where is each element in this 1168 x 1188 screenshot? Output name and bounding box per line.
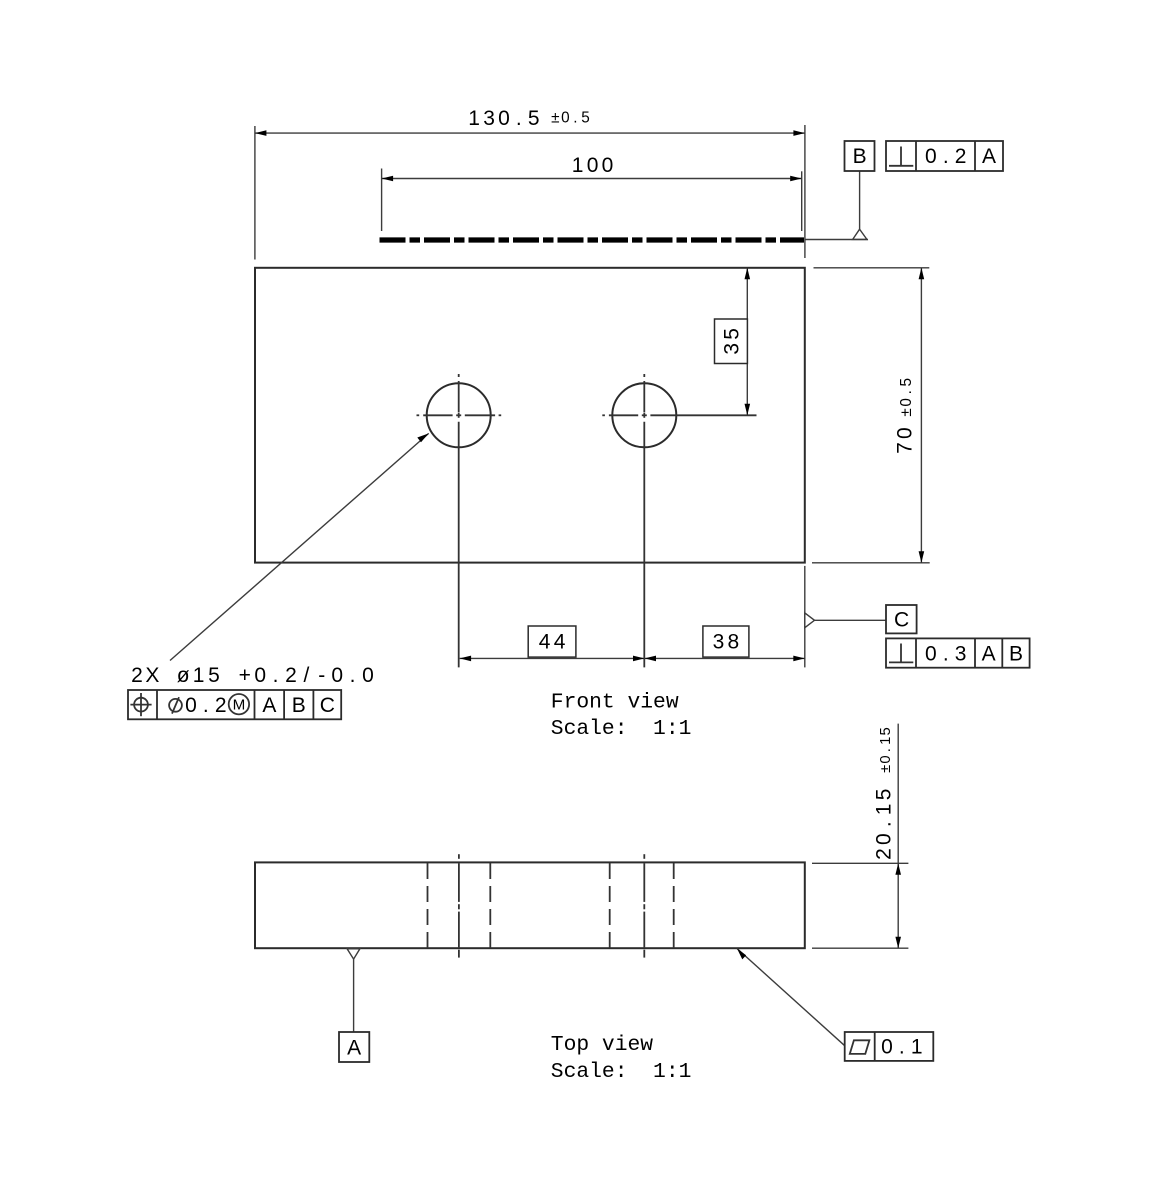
svg-text:Top view: Top view: [551, 1033, 653, 1057]
svg-text:100: 100: [572, 154, 613, 177]
datum B symbol: [806, 141, 875, 240]
svg-text:20.15: 20.15: [873, 789, 896, 860]
hidden line hole 1 left: [427, 863, 429, 948]
svg-text:M: M: [233, 696, 246, 713]
datum C symbol: [805, 605, 917, 633]
hidden line hole 1 right: [489, 863, 491, 948]
svg-text:0.2: 0.2: [185, 694, 226, 717]
dimension 44: [460, 566, 805, 668]
svg-text:0.2: 0.2: [925, 145, 966, 168]
label front view: [551, 691, 692, 741]
svg-text:B: B: [853, 145, 867, 168]
hole 2 centermark: [602, 374, 756, 667]
hidden line hole 2 right: [673, 863, 675, 948]
hole 1 centermark: [417, 374, 502, 667]
svg-text:C: C: [320, 694, 335, 717]
hidden line hole 2 left: [609, 863, 611, 948]
feature control frame position ⌀0.2 M A B C: [128, 690, 341, 719]
svg-text:0.3: 0.3: [925, 642, 966, 665]
hole 2 circle: [602, 374, 756, 667]
top view plate outline: [255, 862, 805, 948]
modifier M circle: [229, 694, 249, 714]
centerline hole 1 (top view): [458, 854, 460, 957]
leader to flatness frame: [737, 949, 845, 1046]
feature control frame perpendicularity 0.3 A B: [886, 638, 1030, 667]
dimension 70 ±0.5: [812, 268, 930, 563]
dimension 35: [715, 268, 751, 416]
label top view: [551, 1033, 692, 1084]
hole 1 circle: [417, 374, 502, 667]
svg-text:Front view: Front view: [551, 691, 679, 715]
svg-text:C: C: [894, 608, 909, 631]
leader to holes note: [170, 433, 429, 660]
dimension 130.5 ±0.5: [255, 107, 805, 259]
svg-text:Scale: 1:1: Scale: 1:1: [551, 1060, 692, 1084]
svg-text:B: B: [292, 694, 306, 717]
svg-text:A: A: [982, 145, 996, 168]
svg-text:0.1: 0.1: [881, 1036, 922, 1059]
svg-text:Scale: 1:1: Scale: 1:1: [551, 717, 692, 741]
feature control frame perpendicularity 0.2 A: [886, 141, 1003, 171]
svg-text:B: B: [1009, 642, 1023, 665]
diameter symbol: [169, 697, 182, 713]
dimension 100: [382, 154, 802, 231]
datum A symbol: [339, 949, 369, 1062]
front view plate outline: [255, 268, 805, 563]
feature control frame flatness 0.1: [845, 1032, 934, 1061]
position symbol: [130, 693, 151, 716]
centerline hole 2 (top view): [643, 854, 645, 957]
svg-text:130.5: 130.5: [468, 107, 539, 130]
svg-text:A: A: [982, 642, 996, 665]
datum target line (thick chain line): [380, 237, 805, 242]
dimension 38: [645, 626, 805, 661]
svg-text:±0.15: ±0.15: [878, 727, 894, 773]
svg-text:A: A: [347, 1036, 361, 1059]
flatness symbol: [850, 1040, 870, 1054]
svg-text:A: A: [262, 694, 276, 717]
dimension 20.15 ±0.15: [812, 724, 908, 949]
